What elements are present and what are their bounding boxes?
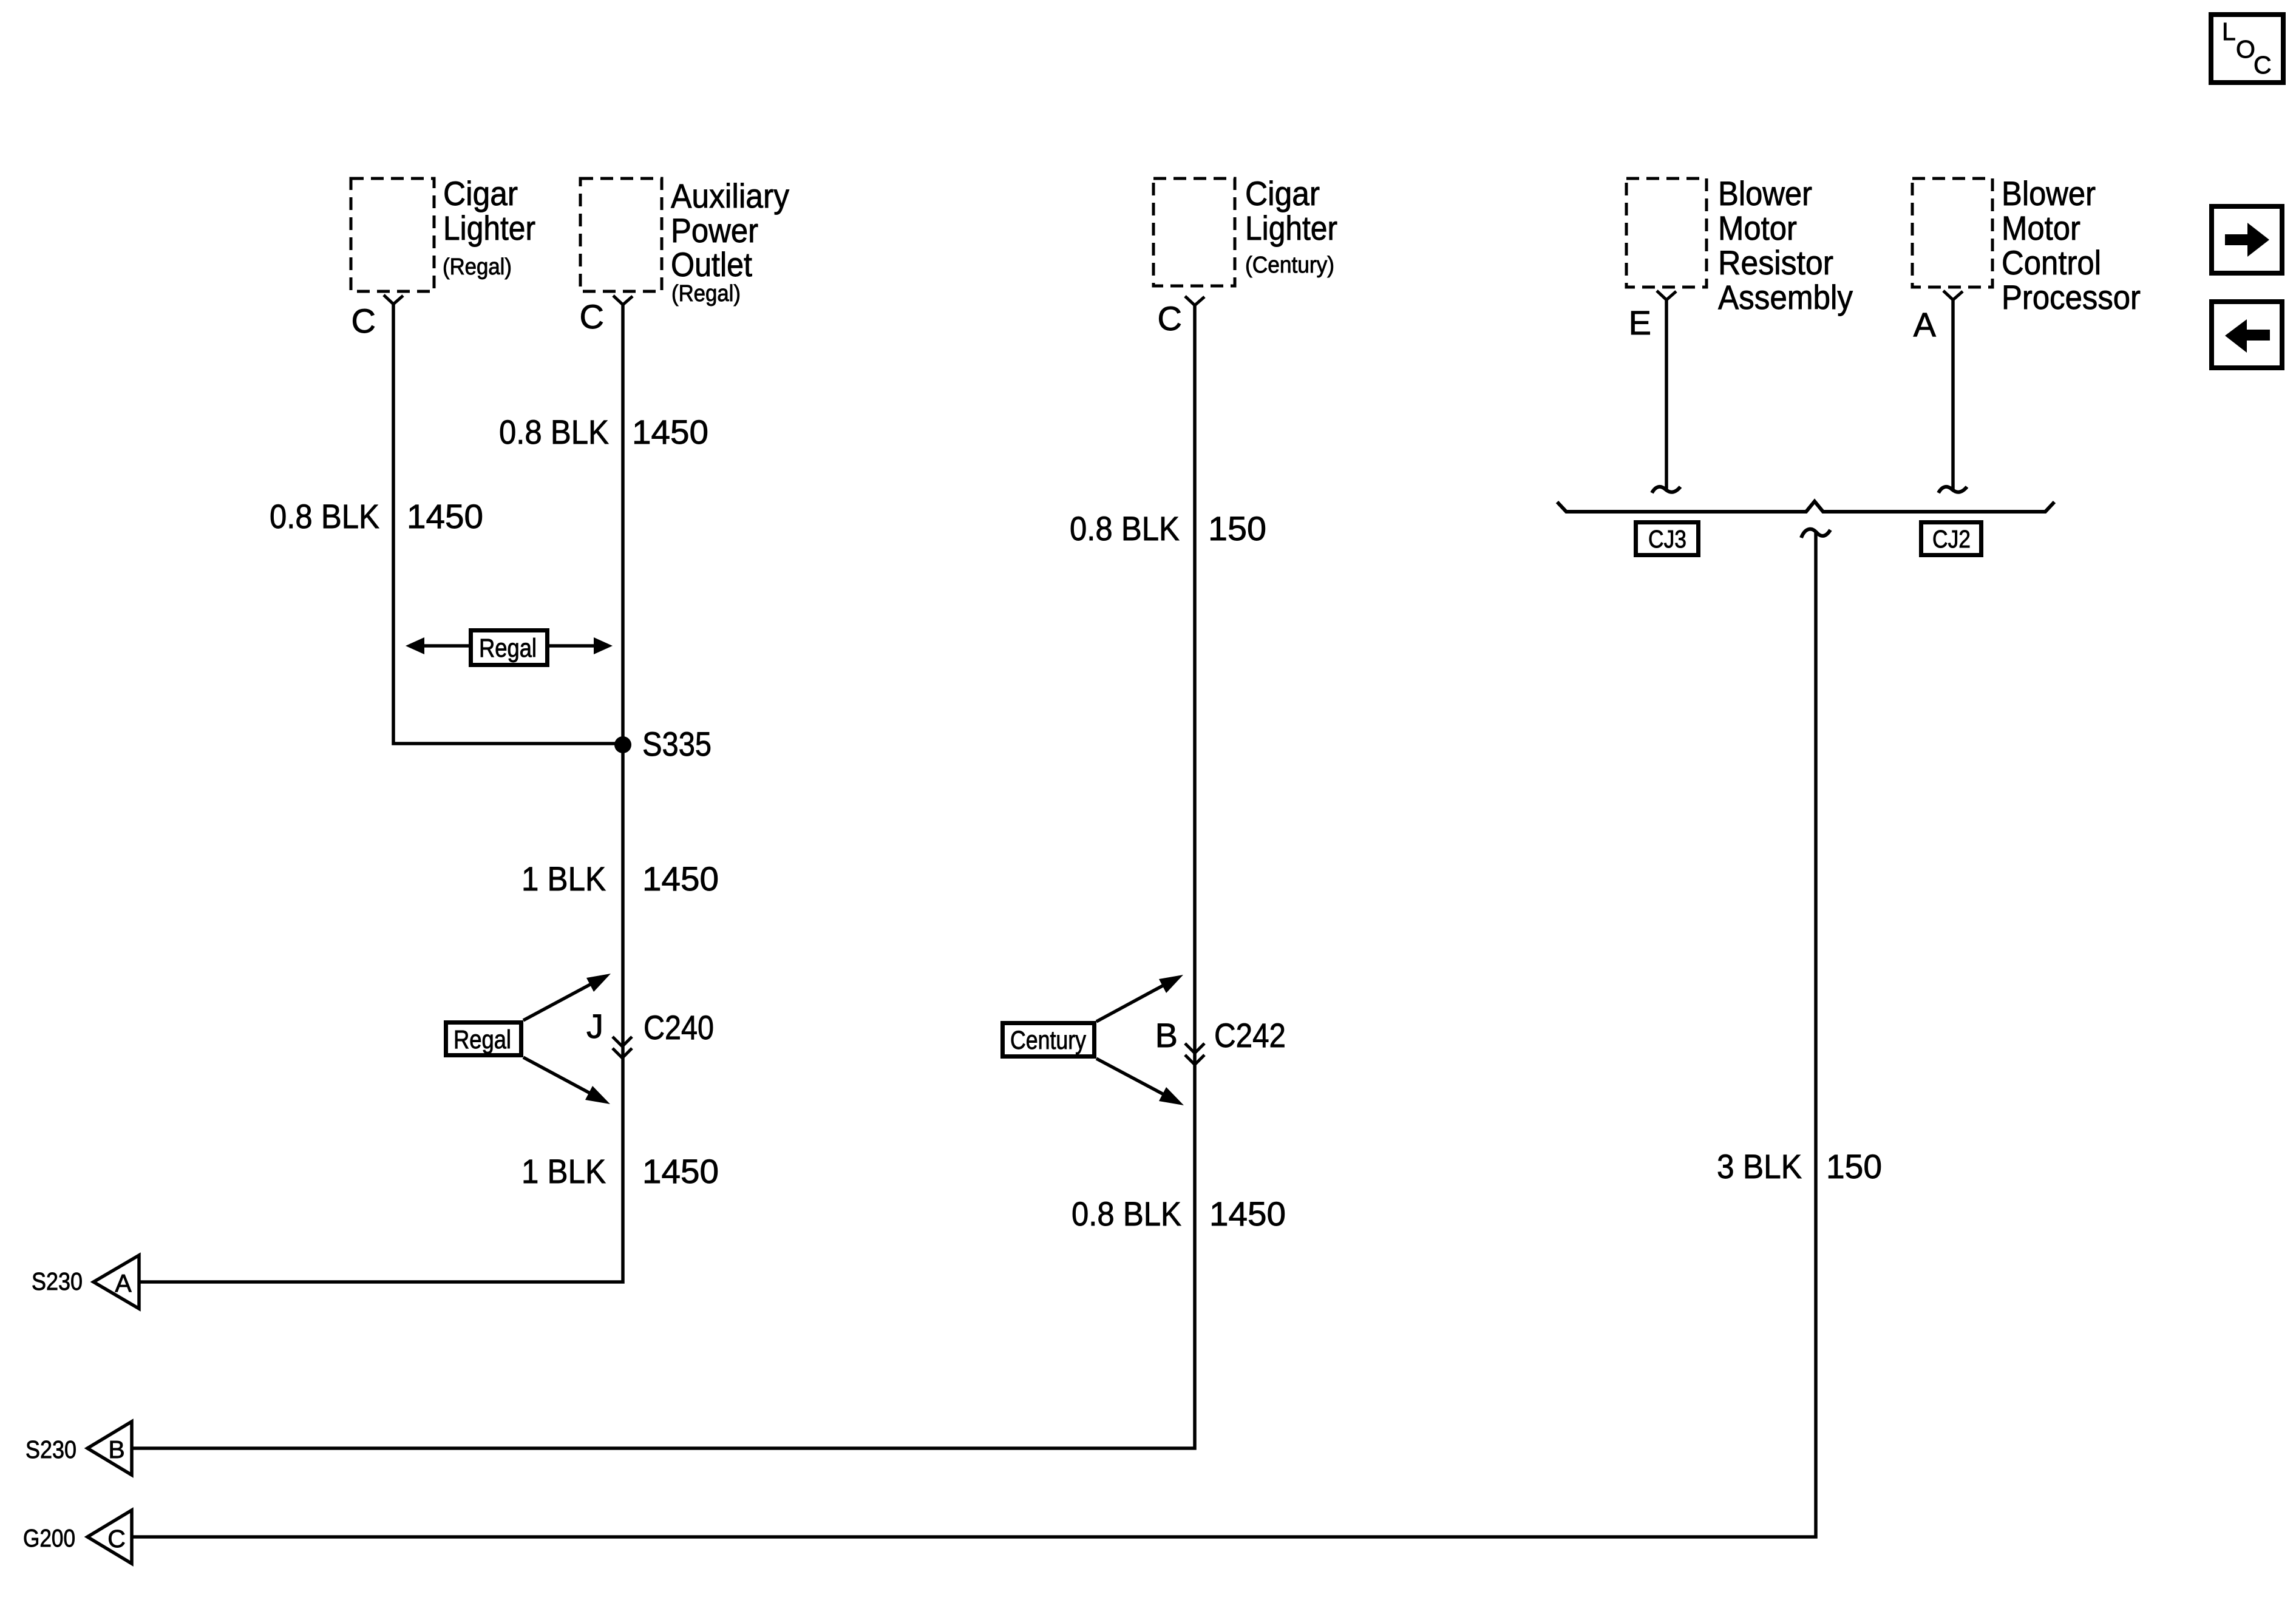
wire label 0.8 BLK 1450 (Aux Power Outlet wire) bbox=[499, 413, 708, 451]
svg-text:E: E bbox=[1629, 303, 1651, 342]
label Blower Motor Control Processor bbox=[2002, 174, 2141, 316]
svg-text:S230: S230 bbox=[32, 1267, 83, 1295]
svg-text:B: B bbox=[1155, 1016, 1178, 1054]
svg-text:Processor: Processor bbox=[2002, 278, 2141, 316]
svg-text:Century: Century bbox=[1010, 1026, 1086, 1055]
svg-text:O: O bbox=[2236, 35, 2255, 63]
svg-text:J: J bbox=[586, 1007, 603, 1045]
svg-text:C240: C240 bbox=[644, 1008, 714, 1046]
svg-text:(Regal): (Regal) bbox=[443, 254, 512, 280]
component Blower Motor Resistor Assembly dashed box bbox=[1626, 178, 1707, 287]
svg-text:Cigar: Cigar bbox=[443, 174, 518, 212]
off-page connector S230 A bbox=[32, 1255, 139, 1309]
label Cigar Lighter (Century) bbox=[1245, 174, 1337, 278]
svg-text:C: C bbox=[580, 297, 604, 336]
svg-text:A: A bbox=[115, 1269, 132, 1297]
splice S335 bbox=[614, 736, 631, 753]
variant tag Century callout at C242 bbox=[1003, 975, 1184, 1105]
svg-text:C: C bbox=[352, 302, 376, 340]
svg-text:(Century): (Century) bbox=[1245, 253, 1334, 278]
wire: Cigar Lighter pin C down and right to splice S335 bbox=[393, 304, 623, 744]
svg-text:CJ3: CJ3 bbox=[1648, 525, 1686, 553]
svg-text:Assembly: Assembly bbox=[1718, 278, 1853, 316]
svg-text:150: 150 bbox=[1208, 509, 1266, 547]
forward arrow legend box bbox=[2212, 206, 2282, 273]
component Cigar Lighter (Regal) dashed box bbox=[351, 178, 434, 291]
label Auxiliary Power Outlet (Regal) bbox=[671, 177, 789, 307]
off-page connector G200 C bbox=[23, 1510, 132, 1564]
svg-text:G200: G200 bbox=[23, 1524, 75, 1552]
svg-text:(Regal): (Regal) bbox=[671, 281, 741, 307]
svg-text:Motor: Motor bbox=[2002, 209, 2080, 247]
svg-text:Regal: Regal bbox=[479, 634, 537, 663]
crimp symbol under splice bus bbox=[1801, 529, 1830, 538]
svg-text:C: C bbox=[1158, 299, 1182, 337]
component Blower Motor Control Processor dashed box bbox=[1912, 178, 1992, 287]
svg-text:1450: 1450 bbox=[1209, 1195, 1286, 1233]
splice bus brace bbox=[1557, 501, 2054, 512]
wire label 1 BLK 1450 (below C240) bbox=[521, 1152, 719, 1190]
crimp symbol at CJ2 bbox=[1938, 487, 1967, 493]
svg-text:L: L bbox=[2222, 18, 2236, 46]
svg-text:0.8 BLK: 0.8 BLK bbox=[499, 413, 609, 451]
svg-text:Control: Control bbox=[2002, 243, 2101, 282]
component Cigar Lighter (Century) dashed box bbox=[1153, 178, 1235, 286]
variant tag Regal callout at C240 bbox=[446, 974, 611, 1104]
svg-text:S335: S335 bbox=[642, 725, 712, 763]
svg-text:Power: Power bbox=[671, 211, 758, 249]
svg-text:0.8 BLK: 0.8 BLK bbox=[1070, 509, 1180, 547]
svg-text:Motor: Motor bbox=[1718, 209, 1797, 247]
svg-text:3 BLK: 3 BLK bbox=[1717, 1147, 1802, 1185]
svg-text:Blower: Blower bbox=[1718, 174, 1812, 212]
wire: Blower Motor Resistor pin E to splice bus CJ3 bbox=[1665, 300, 1668, 491]
svg-text:Auxiliary: Auxiliary bbox=[671, 177, 789, 215]
wire label 0.8 BLK 150 (Century wire) bbox=[1070, 509, 1266, 547]
connector Y at Aux Power Outlet pin C bbox=[613, 296, 633, 305]
backward arrow legend box bbox=[2212, 302, 2282, 368]
svg-text:C242: C242 bbox=[1214, 1016, 1286, 1054]
svg-text:0.8 BLK: 0.8 BLK bbox=[1072, 1195, 1181, 1233]
wire label 0.8 BLK 1450 (Cigar Lighter Regal wire) bbox=[270, 497, 483, 535]
wire: Aux Power Outlet pin C down through S335 and C240 to S230 A bbox=[139, 305, 623, 1282]
svg-text:0.8 BLK: 0.8 BLK bbox=[270, 497, 379, 535]
off-page connector S230 B bbox=[25, 1422, 132, 1475]
svg-text:150: 150 bbox=[1826, 1147, 1882, 1185]
svg-text:1450: 1450 bbox=[407, 497, 483, 535]
svg-text:1 BLK: 1 BLK bbox=[521, 859, 606, 898]
svg-text:C: C bbox=[2254, 51, 2272, 79]
crimp symbol at CJ3 bbox=[1652, 487, 1680, 493]
svg-text:Resistor: Resistor bbox=[1718, 243, 1833, 282]
label Blower Motor Resistor Assembly bbox=[1718, 174, 1853, 316]
component Auxiliary Power Outlet (Regal) dashed box bbox=[580, 178, 662, 291]
svg-text:1450: 1450 bbox=[632, 413, 708, 451]
label CJ3 box bbox=[1636, 523, 1699, 555]
svg-text:S230: S230 bbox=[25, 1436, 76, 1463]
svg-text:Regal: Regal bbox=[453, 1025, 511, 1054]
variant tag Regal with double arrows between the two Regal wires bbox=[406, 631, 613, 665]
svg-text:C: C bbox=[107, 1525, 126, 1553]
label Cigar Lighter (Regal) bbox=[443, 174, 535, 280]
connector Y at Century Cigar Lighter pin C bbox=[1185, 296, 1204, 305]
wire label 0.8 BLK 1450 (below C242) bbox=[1072, 1195, 1286, 1233]
connector C242 chevrons bbox=[1185, 1043, 1204, 1065]
connector Y at Blower Motor Resistor pin E bbox=[1657, 291, 1676, 300]
wire: Century Cigar Lighter pin C down through C242 to S230 B bbox=[132, 305, 1195, 1448]
svg-text:B: B bbox=[108, 1436, 124, 1463]
connector Y at Cigar Lighter pin C bbox=[384, 295, 403, 304]
wire: splice bus down to G200 (3 BLK 150) bbox=[132, 532, 1816, 1537]
wire label 1 BLK 1450 (above C240) bbox=[521, 859, 719, 898]
svg-text:1450: 1450 bbox=[642, 1152, 719, 1190]
wire label 3 BLK 150 bbox=[1717, 1147, 1882, 1185]
svg-text:Cigar: Cigar bbox=[1245, 174, 1320, 212]
wire: Blower Motor Control pin A to splice bus CJ2 bbox=[1951, 300, 1955, 491]
svg-text:Lighter: Lighter bbox=[1245, 209, 1337, 247]
connector Y at Blower Motor Control pin A bbox=[1943, 291, 1963, 300]
label CJ2 box bbox=[1921, 523, 1982, 555]
LOC legend box bbox=[2211, 15, 2283, 83]
svg-text:1 BLK: 1 BLK bbox=[521, 1152, 606, 1190]
svg-text:1450: 1450 bbox=[642, 859, 719, 898]
svg-text:A: A bbox=[1914, 305, 1937, 344]
svg-text:Blower: Blower bbox=[2002, 174, 2096, 212]
svg-text:Lighter: Lighter bbox=[443, 209, 535, 247]
connector C240 chevrons bbox=[613, 1037, 632, 1058]
svg-text:CJ2: CJ2 bbox=[1932, 525, 1971, 553]
svg-text:Outlet: Outlet bbox=[671, 245, 752, 283]
